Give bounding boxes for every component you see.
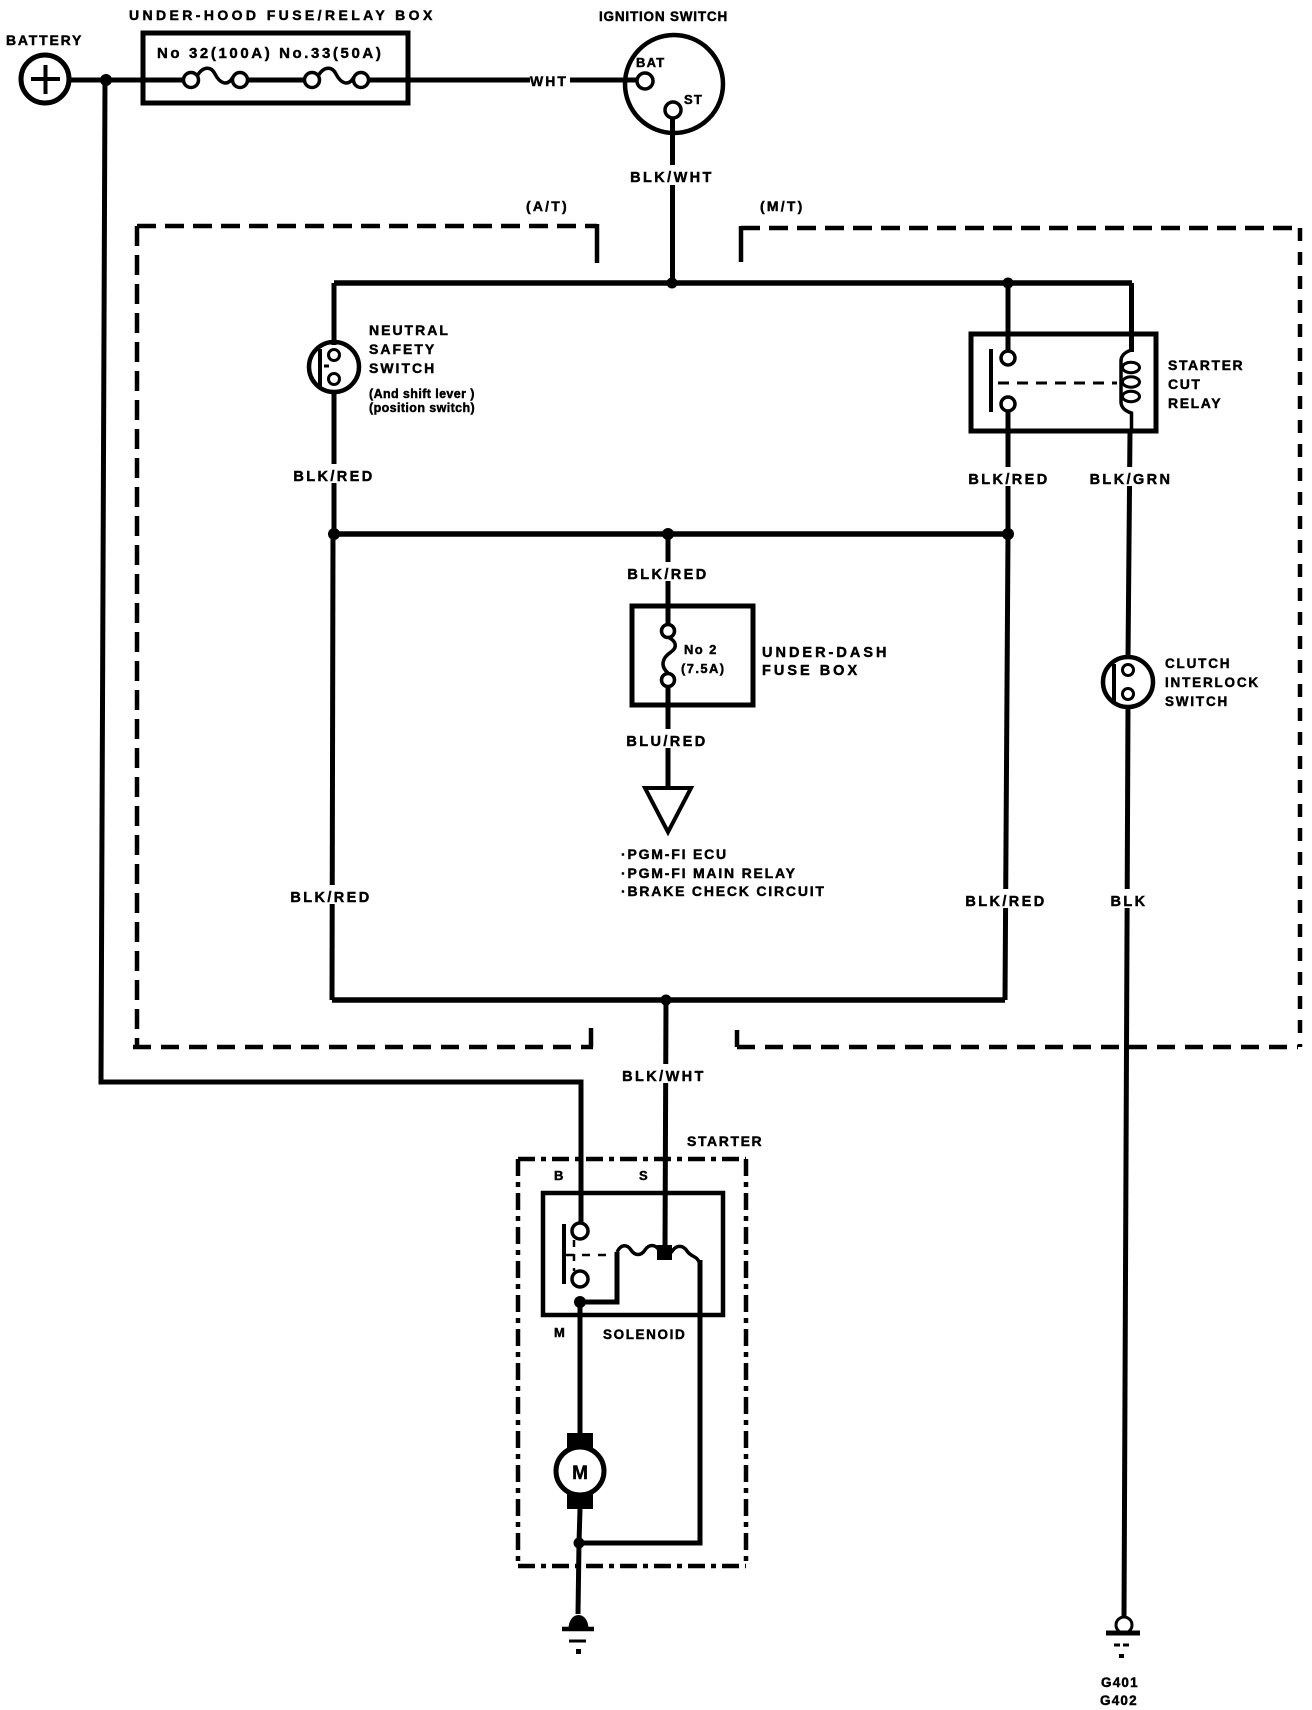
- svg-text:(position switch): (position switch): [369, 401, 475, 415]
- node solenoid M junction: [574, 1296, 586, 1308]
- wire NSS down to mid bus: [332, 390, 337, 534]
- neutral safety switch: [309, 342, 359, 392]
- node mid-right: [1002, 528, 1014, 540]
- svg-text:BLK/RED: BLK/RED: [290, 890, 371, 906]
- wire bus to starter cut relay: [1006, 283, 1011, 352]
- svg-text:FUSE BOX: FUSE BOX: [762, 663, 860, 679]
- svg-text:·BRAKE CHECK CIRCUIT: ·BRAKE CHECK CIRCUIT: [621, 883, 826, 899]
- wire solenoid L link: [580, 1252, 617, 1302]
- wire M to motor: [578, 1302, 583, 1436]
- svg-text:BLK/WHT: BLK/WHT: [622, 1069, 706, 1085]
- fuse No.33 (50A): [305, 68, 369, 87]
- battery: [21, 55, 69, 103]
- label BLK/WHT: [628, 165, 718, 185]
- fuse No.32 (100A): [184, 68, 248, 87]
- label BLK/RED: [624, 562, 713, 581]
- svg-text:SWITCH: SWITCH: [369, 360, 436, 376]
- svg-text:ST: ST: [684, 92, 703, 107]
- wire ST down to bus: [670, 118, 675, 283]
- svg-text:(A/T): (A/T): [526, 198, 569, 214]
- svg-text:BLK/RED: BLK/RED: [293, 469, 374, 485]
- ground G401 G402: [1116, 1617, 1132, 1633]
- svg-text:NEUTRAL: NEUTRAL: [369, 322, 450, 338]
- wire right mid vertical: [1005, 534, 1008, 1000]
- node battery junction: [100, 74, 112, 86]
- solenoid: [543, 1193, 723, 1315]
- top bus wire: [334, 280, 1132, 286]
- bottom bus wire: [332, 997, 1005, 1003]
- node coil S junction: [657, 1245, 672, 1260]
- svg-text:UNDER-DASH: UNDER-DASH: [762, 645, 889, 661]
- starter cut relay: [971, 334, 1156, 431]
- wire mid bus to under-dash fuse: [666, 534, 671, 626]
- label BLK/GRN: [1087, 467, 1177, 486]
- wire relay coil down to clutch interlock: [1128, 431, 1130, 658]
- wire fuse down to arrow: [666, 686, 671, 792]
- svg-text:STARTER: STARTER: [687, 1133, 763, 1149]
- wire battery down left side: [101, 80, 581, 1225]
- node motor return junction: [574, 1538, 585, 1549]
- svg-text:M: M: [572, 1463, 588, 1484]
- svg-text:BLK: BLK: [1110, 894, 1147, 910]
- terminal BAT: [637, 73, 653, 89]
- svg-text:UNDER-HOOD FUSE/RELAY BOX: UNDER-HOOD FUSE/RELAY BOX: [129, 7, 436, 23]
- svg-text:CLUTCH: CLUTCH: [1165, 656, 1231, 671]
- label BLK/RED: [965, 467, 1054, 486]
- svg-text:BLK/RED: BLK/RED: [968, 472, 1049, 488]
- svg-text:RELAY: RELAY: [1168, 395, 1222, 411]
- svg-text:BLK/RED: BLK/RED: [965, 894, 1046, 910]
- svg-text:BLU/RED: BLU/RED: [626, 734, 707, 750]
- wire bus to neutral safety switch: [332, 283, 337, 345]
- wire WHT to ignition switch: [570, 78, 637, 83]
- node bottom-center: [661, 995, 672, 1006]
- svg-text:IGNITION SWITCH: IGNITION SWITCH: [599, 9, 728, 24]
- wire battery to fuse box: [69, 78, 144, 83]
- svg-text:SWITCH: SWITCH: [1165, 694, 1229, 709]
- label BLK/WHT: [620, 1064, 710, 1083]
- label BLK/RED: [962, 889, 1051, 908]
- svg-text:BLK/GRN: BLK/GRN: [1090, 472, 1173, 488]
- svg-text:WHT: WHT: [530, 73, 568, 89]
- svg-text:G401: G401: [1101, 1675, 1139, 1690]
- wire through fuse box: [144, 78, 185, 83]
- svg-text:SOLENOID: SOLENOID: [603, 1327, 686, 1342]
- solenoid coil: [617, 1246, 699, 1263]
- label BLU/RED: [624, 729, 712, 748]
- svg-text:M: M: [554, 1325, 566, 1340]
- svg-text:No 2: No 2: [684, 642, 718, 657]
- svg-text:STARTER: STARTER: [1168, 357, 1244, 373]
- node relay switch junction: [1003, 278, 1014, 289]
- node mid-left: [328, 528, 340, 540]
- label BLK/RED: [288, 885, 377, 904]
- label BLK: [1105, 889, 1153, 908]
- wire relay switch down to mid bus: [1006, 411, 1011, 534]
- svg-text:(M/T): (M/T): [760, 198, 804, 214]
- wire coil to motor return: [583, 1260, 700, 1543]
- svg-text:INTERLOCK: INTERLOCK: [1165, 675, 1260, 690]
- wire clutch interlock down to ground: [1124, 706, 1128, 1618]
- wire motor to ground: [579, 1509, 580, 1543]
- svg-text:G402: G402: [1100, 1693, 1138, 1708]
- svg-text:SAFETY: SAFETY: [369, 341, 436, 357]
- wire left mid vertical: [332, 534, 333, 1000]
- svg-text:B: B: [554, 1168, 564, 1183]
- under-dash fuse box: [632, 606, 753, 705]
- wire bus corner to relay coil: [1129, 283, 1134, 352]
- wire bottom bus to starter S: [665, 1000, 666, 1250]
- node ignition junction: [667, 278, 678, 289]
- node mid-center: [662, 528, 674, 540]
- svg-text:BAT: BAT: [636, 55, 665, 70]
- svg-text:(7.5A): (7.5A): [681, 661, 726, 676]
- svg-text:·PGM-FI ECU: ·PGM-FI ECU: [621, 846, 728, 862]
- svg-text:·PGM-FI MAIN RELAY: ·PGM-FI MAIN RELAY: [621, 865, 797, 881]
- label BLK/RED: [290, 464, 379, 483]
- clutch interlock switch: [1103, 657, 1153, 707]
- svg-text:S: S: [639, 1168, 649, 1183]
- ground (starter): [569, 1616, 588, 1630]
- fuse No.2 (7.5A): [662, 625, 676, 687]
- mid bus wire: [333, 531, 1008, 537]
- svg-text:BATTERY: BATTERY: [6, 32, 83, 48]
- svg-text:BLK/RED: BLK/RED: [627, 567, 708, 583]
- relay coil: [1121, 335, 1140, 431]
- arrow to PGM-FI circuits: [645, 788, 691, 832]
- svg-text:No 32(100A) No.33(50A): No 32(100A) No.33(50A): [157, 45, 383, 62]
- terminal ST: [665, 102, 681, 118]
- svg-text:(And shift lever ): (And shift lever ): [369, 387, 475, 401]
- svg-text:BLK/WHT: BLK/WHT: [630, 170, 714, 186]
- svg-text:CUT: CUT: [1168, 376, 1202, 392]
- starter motor: [567, 1433, 593, 1449]
